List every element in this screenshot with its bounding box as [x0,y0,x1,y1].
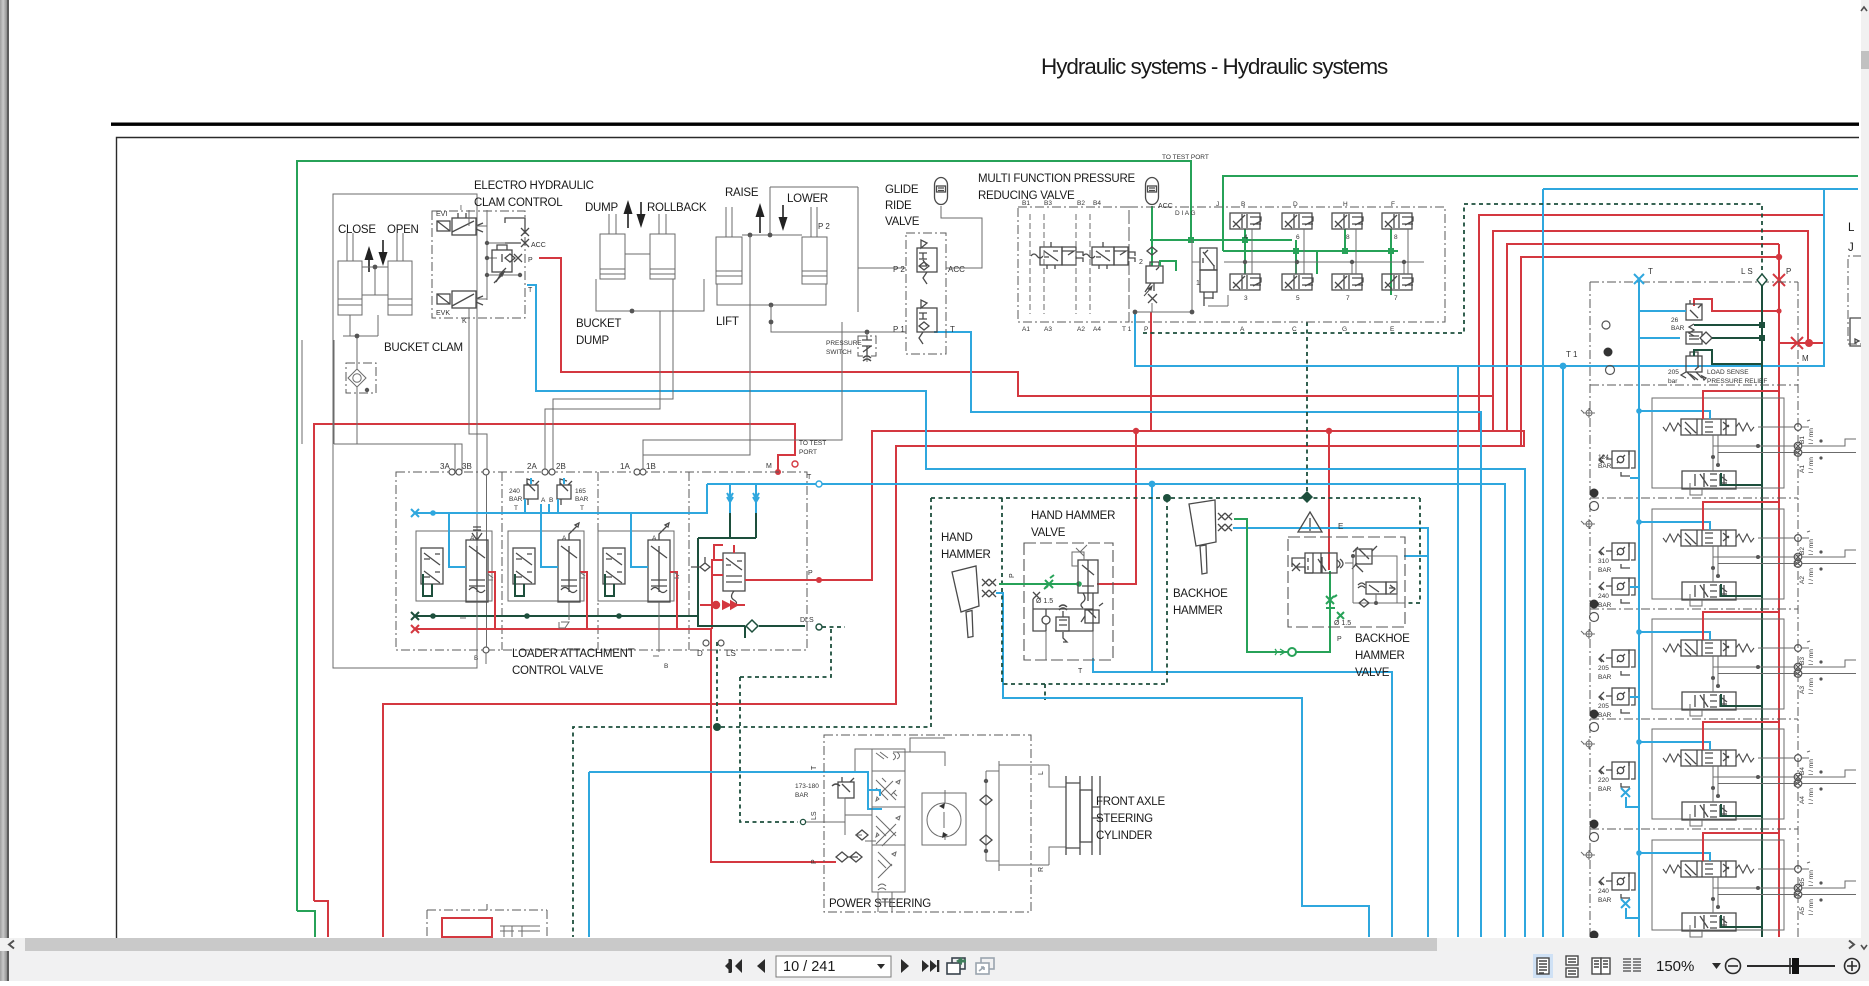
node dg dots [430,613,622,619]
wire red top staircase 1 to M [1479,215,1824,431]
svg-text:BUCKET CLAM: BUCKET CLAM [384,342,463,354]
blue 124 stub [1630,477,1639,479]
wire dashed main DLS line [931,497,1420,499]
wire blue T1 multifunction line [1135,189,1858,366]
svg-text:SWITCH: SWITCH [826,349,852,356]
svg-text:A: A [652,535,657,542]
svg-text:D I A G: D I A G [1175,210,1196,217]
green check valve [1275,648,1296,656]
glide cartridge P2 [917,240,937,284]
node backhoe dots [1351,554,1378,605]
backhoe solenoid valve [1358,582,1397,594]
svg-text:Ø 1.5: Ø 1.5 [1334,620,1351,627]
valve section B4/A4 [1581,722,1856,842]
bank outer border left [1589,282,1591,937]
svg-text:B4: B4 [1093,200,1101,207]
svg-text:B5: B5 [1799,878,1806,886]
wire red bank P port X [1773,274,1785,286]
svg-text:A5: A5 [1799,907,1806,915]
svg-text:B2: B2 [1077,200,1085,207]
wire red bridge hop over steering feeds [383,704,711,937]
reducing valve clam [492,245,512,283]
dark green check links [698,513,756,616]
wire blue clam T line [527,285,1525,937]
svg-text:DUMP: DUMP [585,202,618,214]
svg-text:PRESSURE RELIEF: PRESSURE RELIEF [1707,378,1767,385]
arrow down open [382,240,384,254]
svg-text:FRONT AXLE: FRONT AXLE [1096,796,1165,808]
svg-text:A1: A1 [1799,465,1806,473]
svg-text:1A: 1A [620,462,630,471]
section 2 pilot [513,548,535,584]
wire blue main tank line [707,484,1505,937]
port circles top [449,469,646,475]
svg-text:E: E [1338,522,1343,531]
hand hammer ports X [982,579,996,597]
svg-text:A3: A3 [1799,686,1806,694]
wire dump A to valve [545,311,660,472]
steering check diamond [856,830,868,840]
svg-text:T: T [514,505,518,512]
cylinder dump left [600,214,625,279]
section 3 outline [416,531,492,601]
svg-text:1B: 1B [646,462,656,471]
svg-text:HAMMER: HAMMER [941,549,991,561]
arrow up dump [627,212,629,228]
wire hh valve T drop [1046,631,1093,660]
dump manifold shell [596,240,704,311]
section 3 spool tail [460,574,493,664]
dark green bus X [411,612,419,620]
bottom horizontal scrollbar [9,938,1861,951]
svg-text:P: P [808,570,813,577]
svg-text:A2: A2 [1077,326,1085,333]
svg-text:bar: bar [1668,378,1678,385]
svg-text:3B: 3B [462,462,472,471]
wire green bus1 of multifunction valve [1150,239,1292,241]
cylinder lift right [802,207,827,284]
relief 205 BAR s3b [1599,688,1635,713]
svg-text:P: P [811,859,818,864]
front axle cylinder [1066,776,1100,855]
power steering box [824,735,1031,912]
solenoid valve F top [1382,213,1413,229]
wire green riser valve8a [1344,229,1346,251]
wire red bank P vertical [1778,244,1780,937]
wire clam valve spine [476,210,520,300]
relief 205 BAR s3a [1599,650,1635,675]
priority red loop [712,545,819,629]
svg-text:LOAD SENSE: LOAD SENSE [1707,369,1749,376]
wire red bank M port X [1790,337,1804,349]
pilot valve 1 vertical [1200,248,1217,306]
node red bank dots [1776,254,1813,347]
wire green ACC drop multifunction [1151,206,1153,266]
throttle X small [1033,592,1040,599]
wire green backhoe P [1234,519,1298,652]
backhoe valve pilot X [1292,558,1313,573]
svg-text:124: 124 [1598,454,1609,461]
bottom cut box [427,904,547,937]
svg-text:B: B [664,663,668,670]
hand hammer tool [952,566,979,638]
valve section B5/A5 [1581,833,1856,953]
section 2 blue elbow [541,513,558,567]
svg-text:BAR: BAR [509,496,523,503]
right cut bracket [1848,256,1862,344]
wire dashed DLS exit [822,626,845,628]
svg-text:l / mn: l / mn [1808,788,1815,804]
svg-text:1: 1 [1196,280,1200,287]
wire steering T entry [868,790,880,796]
blue 26bar stub [1639,310,1686,312]
svg-text:HAMMER: HAMMER [1355,650,1405,662]
svg-text:165: 165 [575,488,586,495]
pilot bank dashed box [1018,207,1129,322]
svg-text:A: A [470,535,475,542]
svg-text:LOADER ATTACHMENT: LOADER ATTACHMENT [512,648,635,660]
dark green bus [415,615,698,617]
node green dot [1076,581,1082,587]
svg-text:F: F [1391,201,1395,208]
solenoid valve H top [1332,213,1363,229]
wire blue T1 drop to bundle [1562,366,1564,937]
node dump dot [630,309,635,314]
svg-text:l / mn: l / mn [1808,457,1815,473]
blue relief loop [525,478,564,513]
port circle bottom [483,647,489,653]
svg-text:LOWER: LOWER [787,193,828,205]
wire dashed to lower left net [573,498,931,937]
svg-text:E: E [1390,326,1395,333]
loader valve divider 2 [597,472,599,650]
svg-text:P: P [528,257,533,264]
wire blue power steering T tail [588,772,590,937]
svg-text:H: H [1343,201,1348,208]
valve section B2/A2 [1581,502,1856,622]
wire green riser valve4 [1244,229,1246,274]
port P X [512,254,522,262]
wire red branch to backhoe hammer valve E [1328,431,1330,570]
blue check stubs right [727,484,759,513]
svg-text:MULTI FUNCTION PRESSURE: MULTI FUNCTION PRESSURE [978,173,1136,185]
solenoid valve D top [1282,213,1313,229]
svg-text:6: 6 [1296,234,1300,241]
steering P diamond entry [836,852,858,862]
svg-text:BAR: BAR [1598,897,1612,904]
wire dashed backhoe drop [1405,498,1420,603]
steering spool column [872,749,905,892]
wire lift line to glide P1 [643,305,906,472]
svg-text:Ø 1.5: Ø 1.5 [1036,598,1053,605]
bottom toolbar [9,951,1861,981]
right vertical scrollbar [1861,0,1869,981]
node spine dots [485,241,522,277]
svg-text:3A: 3A [440,462,450,471]
svg-text:A: A [541,497,546,504]
svg-text:l / mn: l / mn [1808,678,1815,694]
svg-text:2B: 2B [556,462,566,471]
svg-text:240: 240 [1598,888,1609,895]
glide cartridge P1 [917,300,937,344]
section 3 red elbow [488,572,495,629]
relief arrow glyph [1690,372,1706,380]
svg-text:l / mn: l / mn [1808,649,1815,665]
port X acc blind [505,218,529,243]
svg-text:VALVE: VALVE [1355,667,1390,679]
solenoid valve E bottom [1382,274,1413,290]
node dashed diamond [1301,491,1313,503]
relief 124 BAR [1599,451,1635,476]
wire green hand hammer P [999,583,1079,585]
wire pressure switch stub [866,332,868,362]
svg-text:DUMP: DUMP [576,335,609,347]
wire green backhoe P to valve [1295,571,1330,652]
hh relief small [1081,603,1103,623]
svg-text:205: 205 [1668,369,1679,376]
svg-text:HAND: HAND [941,532,973,544]
wire red 26bar relief loop [1694,299,1779,311]
node blue T1 dot [1560,363,1567,370]
svg-text:PRESSURE: PRESSURE [826,340,862,347]
svg-text:ACC: ACC [531,242,546,249]
hh valve lower internals [1033,593,1093,631]
section 1 spool [648,523,670,602]
svg-text:LS: LS [811,811,818,820]
node D LS ports [703,640,724,646]
svg-text:B: B [474,655,478,662]
blue filter stub [1639,337,1680,339]
wire green bottom-left tail [297,911,315,937]
reducing valve 2 [1144,262,1163,296]
accumulator glide [935,178,948,205]
diamond check green [1147,247,1157,255]
section 1 red elbow [670,572,677,629]
node dg squares [1759,322,1765,341]
wire clam A line down to 3A [302,340,455,472]
svg-text:10 / 241: 10 / 241 [783,959,835,975]
blue stub s2 lower relief [1630,586,1639,588]
blue stub s3 lower relief [1630,696,1639,698]
diamond DLS [746,620,758,632]
svg-text:240: 240 [509,488,520,495]
node clam bottom dot [355,334,360,339]
svg-text:ACC: ACC [948,265,965,274]
page border [117,138,1860,939]
wire black P/T1 collect [1135,240,1192,312]
svg-text:B1: B1 [1022,200,1030,207]
steering out lines [999,765,1066,865]
node green junctions [1188,237,1394,254]
blue T bus [415,484,707,513]
svg-text:ROLLBACK: ROLLBACK [647,202,707,214]
node dashed dot2 [713,723,721,731]
svg-text:T: T [950,325,955,334]
svg-text:A4: A4 [1093,326,1101,333]
svg-text:BAR: BAR [1598,602,1612,609]
svg-text:A3: A3 [1044,326,1052,333]
section 1 spool tail [653,572,679,656]
red bypass valve [700,602,745,609]
relief 310 BAR [1599,543,1635,568]
blue X s4 [1621,788,1639,807]
node red junction dots [775,428,1332,583]
svg-text:T 1: T 1 [1566,350,1578,359]
svg-text:B: B [549,497,553,504]
node M port red circle [792,461,798,467]
glide valve dashed box [906,233,946,354]
relief 240 BAR s5 [1599,873,1635,898]
svg-text:A4: A4 [1799,796,1806,804]
svg-text:BUCKET: BUCKET [576,318,621,330]
wire check valve down [357,390,367,444]
wire green test-port line (top border) [297,161,1191,911]
loader valve divider 1 [501,472,503,650]
wire dashed D port drop [716,642,718,727]
steering check diamonds right [980,795,992,845]
steering gray internals [838,738,945,841]
blue T1 entry [1595,365,1639,367]
svg-text:P: P [1009,573,1016,578]
wire red top staircase 2 to M [1493,231,1808,396]
solenoid valve C bottom [1282,274,1313,290]
node mf dots [1133,310,1195,315]
svg-text:BAR: BAR [575,496,589,503]
node blue bus dot [430,510,436,516]
svg-text:220: 220 [1598,777,1609,784]
clam control dashed box [432,211,525,318]
wire green riser valve7 [1316,251,1318,274]
node lift shell dot [769,303,774,308]
backhoe valve box [1288,537,1405,627]
red bus [415,628,712,630]
section 2 dg U [515,574,524,596]
green n-loop reducing [1160,261,1176,271]
svg-text:BAR: BAR [1598,674,1612,681]
section 1 dg U [605,574,614,596]
svg-text:B1: B1 [1799,436,1806,444]
backhoe hammer tool [1189,500,1216,574]
svg-text:STEERING: STEERING [1096,813,1153,825]
svg-text:B3: B3 [1799,657,1806,665]
hh valve spool [1078,560,1098,608]
arrow down rollback [640,202,642,216]
wire dashed pilot drop J [1306,322,1308,497]
svg-text:EVI: EVI [436,211,447,218]
pressure switch [858,336,876,361]
wire green riser valve6 [1295,240,1297,274]
dg 205 top loop [1694,350,1762,364]
bank circles column [1602,321,1615,375]
blue T X [1634,274,1644,284]
pilot bank inner lines [1030,214,1090,314]
svg-text:8: 8 [1346,234,1350,241]
svg-text:VALVE: VALVE [885,216,920,228]
relief 240 BAR s2 [1599,578,1635,603]
throttle X below reducing [1148,294,1157,303]
26 BAR relief [1686,300,1702,336]
pump cut symbol bottom center [878,892,892,912]
wire dump B to valve [553,279,673,472]
green throttle X [1044,575,1054,589]
wire blue hand hammer T to bundle [1152,672,1392,937]
svg-text:EVK: EVK [436,310,450,317]
svg-text:VALVE: VALVE [1031,527,1066,539]
wire blue bundle line 3 [1457,366,1459,937]
svg-text:CYLINDER: CYLINDER [1096,830,1152,842]
blue X s5 [1621,899,1639,918]
hh valve top bypass [1072,545,1087,566]
svg-text:26: 26 [1671,317,1679,324]
svg-text:2: 2 [1139,259,1143,266]
section 1 blue elbow [631,513,648,567]
wire dashed DLS stub [740,627,831,677]
blue bus X [411,509,419,517]
wire clam bottoms to check valve [343,315,378,363]
svg-text:7: 7 [1346,295,1350,302]
wire red top staircase 3 to P [1507,244,1779,430]
node lift p1 dots [769,320,870,335]
green throttle X2 [1337,612,1344,619]
svg-text:4: 4 [1244,234,1248,241]
steering P diamond [850,852,862,862]
svg-text:A: A [562,535,567,542]
node steering dots [984,779,988,853]
priority valve [723,553,745,606]
svg-text:T: T [580,505,584,512]
wire gray valve stubs [1252,229,1408,274]
svg-text:T: T [1648,267,1653,276]
wire green riser valve8b [1390,229,1392,295]
svg-text:J: J [1216,201,1219,208]
backhoe hammer ports X [1218,513,1232,531]
section 1 outline [598,531,674,601]
arrow down lower [782,205,784,219]
dark green DLS out [698,616,805,638]
wire blue bank T vertical [1638,279,1640,937]
svg-text:173-180: 173-180 [795,783,819,790]
filter glyph [1686,332,1712,344]
svg-text:BAR: BAR [1598,463,1612,470]
node check dot [365,388,369,392]
lift manifold top [742,187,858,312]
svg-text:BAR: BAR [1598,786,1612,793]
wire blue hand hammer return [996,593,1369,937]
svg-text:240: 240 [1598,593,1609,600]
divider pump/sections [1590,384,1798,386]
steering right column [986,761,999,871]
svg-text:T 1: T 1 [1122,326,1132,333]
svg-text:l / mn: l / mn [1808,759,1815,775]
wire gray LS lead [806,821,845,823]
backhoe diamond [1359,599,1369,607]
accumulator multifunction [1146,178,1159,205]
section 3 blue elbow [449,513,466,567]
valve section B3/A3 [1581,612,1856,732]
svg-text:l / mn: l / mn [1808,539,1815,555]
svg-text:ELECTRO HYDRAULIC: ELECTRO HYDRAULIC [474,180,594,192]
node T circle [816,481,822,487]
wire red top staircase 4 to P [1521,257,1779,446]
cylinder lift left [716,207,742,284]
loader valve outer box [396,472,807,650]
svg-text:D: D [1293,201,1298,208]
svg-text:l / mn: l / mn [1808,568,1815,584]
svg-text:L S: L S [1741,267,1753,276]
svg-text:P 1: P 1 [893,325,905,334]
section 2 red elbow [580,572,587,629]
node blue main dot [1149,481,1156,488]
